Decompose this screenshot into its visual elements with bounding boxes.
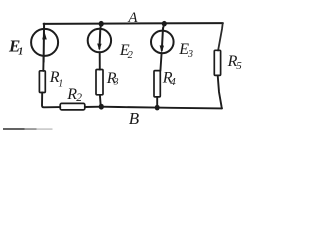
resistor R3	[96, 70, 103, 95]
svg-text:1: 1	[18, 47, 23, 58]
E2 arrow	[97, 44, 101, 51]
R1 label	[49, 69, 63, 89]
resistor R2	[60, 103, 85, 110]
svg-text:A: A	[127, 10, 138, 26]
node A	[127, 10, 138, 26]
svg-text:2: 2	[76, 92, 82, 104]
E3 label	[178, 41, 193, 60]
svg-text:1: 1	[58, 79, 63, 90]
E2 label	[119, 42, 134, 61]
svg-text:B: B	[129, 109, 140, 128]
R3 label	[106, 70, 119, 87]
E3 arrow	[160, 45, 164, 52]
wire E2 to R3	[99, 52, 101, 69]
EMF source E2	[88, 28, 111, 52]
junction dot top left	[99, 21, 104, 27]
E1 label	[8, 36, 23, 57]
svg-text:4: 4	[170, 76, 176, 88]
wire E2 top stub	[99, 24, 102, 29]
wire bottom bus node B	[101, 107, 222, 109]
R2 label	[66, 86, 82, 104]
wire E3 top stub	[163, 24, 164, 30]
resistor R1	[39, 71, 45, 93]
wire R1 to bottom corner	[42, 93, 60, 108]
node B	[129, 109, 140, 128]
junction dot top right	[162, 21, 167, 27]
junction dot bottom right	[155, 105, 160, 111]
wire E1 to R1	[42, 56, 44, 71]
wire R5 to bottom corner	[218, 75, 222, 108]
svg-text:2: 2	[128, 50, 134, 61]
wire R2 to node B segment	[85, 106, 102, 108]
resistor R4	[154, 71, 160, 97]
wire top bus node A	[44, 22, 223, 25]
EMF source E1	[31, 29, 58, 62]
resistor R5	[214, 50, 220, 75]
wire right drop to R5	[218, 23, 223, 50]
R4 label	[162, 70, 177, 88]
svg-text:5: 5	[236, 60, 242, 72]
EMF source E3	[151, 28, 174, 53]
R5 label	[227, 53, 243, 72]
wire R3 to bottom	[99, 95, 102, 106]
wire E3 to R4	[160, 53, 161, 71]
wire R4 to bottom	[156, 97, 158, 107]
junction dot bottom left	[99, 104, 104, 110]
wire left drop to E1	[43, 24, 45, 29]
svg-text:3: 3	[113, 78, 119, 88]
scan artifact bar bottom left	[3, 128, 53, 130]
E1 arrow	[42, 32, 47, 40]
svg-text:3: 3	[187, 49, 193, 60]
